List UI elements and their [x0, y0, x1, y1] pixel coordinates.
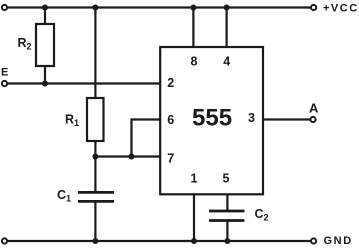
node GND pin1 junction	[191, 238, 197, 244]
wire pin 8	[192, 8, 194, 48]
wire vertical VCC to R1	[94, 8, 96, 99]
wire C2 bottom to GND	[226, 221, 228, 242]
wire R1 bottom to C1	[94, 141, 96, 192]
svg-text:8: 8	[191, 55, 198, 69]
svg-text:7: 7	[167, 152, 174, 166]
wire GND rail	[5, 240, 311, 242]
wire pin 5 to C2	[226, 194, 228, 211]
svg-text:A: A	[309, 101, 319, 116]
node top rail pin 4 junction	[224, 5, 230, 11]
wire C1 bottom to GND	[94, 202, 96, 241]
op-amp U1 555 box	[160, 47, 263, 194]
wire pin 3 to A	[263, 118, 310, 120]
wire R2 top lead	[44, 8, 46, 25]
svg-text:555: 555	[192, 105, 232, 132]
node GND C2 junction	[224, 238, 230, 244]
terminal E	[2, 81, 7, 86]
terminal +VCC	[311, 5, 316, 10]
terminal A	[310, 117, 315, 122]
svg-text:GND: GND	[324, 235, 353, 247]
resistor R1	[87, 98, 104, 141]
svg-text:6: 6	[167, 113, 174, 127]
wire pin 1 to GND	[193, 194, 195, 241]
node GND C1 junction	[92, 238, 98, 244]
node pin7 row R1 junction	[92, 154, 98, 160]
svg-text:5: 5	[223, 172, 230, 186]
wire pin 6 jog	[132, 120, 162, 157]
terminal top-left	[2, 5, 7, 10]
svg-text:4: 4	[223, 55, 230, 69]
node top rail pin 8 junction	[190, 5, 196, 11]
node top rail R1 branch junction	[92, 5, 98, 11]
svg-text:+VCC: +VCC	[323, 3, 359, 15]
wire pin 4	[226, 8, 228, 48]
wire pin 7 row	[95, 155, 161, 157]
capacitor C1	[78, 191, 114, 194]
capacitor C2	[209, 210, 245, 213]
svg-text:1: 1	[191, 172, 198, 186]
svg-text:2: 2	[167, 76, 174, 90]
terminal GND	[311, 238, 316, 243]
wire top rail +VCC	[5, 6, 311, 8]
node top rail R2 junction	[42, 5, 48, 11]
wire E row to pin 2	[5, 82, 162, 84]
node E row R2 junction	[42, 81, 48, 87]
terminal bottom-left	[2, 238, 7, 243]
svg-text:3: 3	[248, 111, 255, 125]
resistor R2	[36, 24, 54, 66]
wire R2 bottom lead	[44, 66, 46, 84]
svg-text:E: E	[1, 67, 8, 79]
node pin7 row pin6 junction	[129, 154, 135, 160]
